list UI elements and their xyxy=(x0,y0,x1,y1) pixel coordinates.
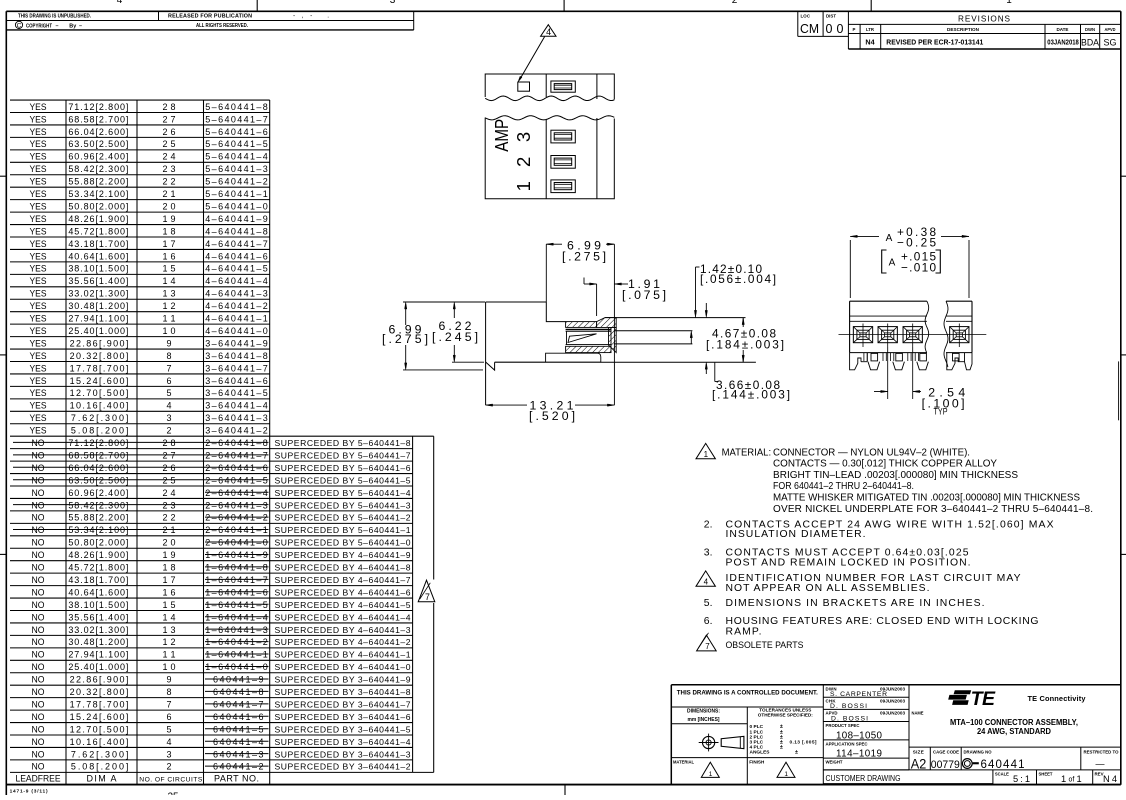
svg-text:NAME: NAME xyxy=(912,710,924,715)
svg-text:1: 1 xyxy=(704,450,709,459)
svg-text:YES: YES xyxy=(30,276,47,286)
svg-text:4–640441–7: 4–640441–7 xyxy=(205,239,267,249)
svg-text:SUPERCEDED BY 4–640441–3: SUPERCEDED BY 4–640441–3 xyxy=(275,625,411,635)
svg-text:SUPERCEDED BY 4–640441–1: SUPERCEDED BY 4–640441–1 xyxy=(275,650,411,660)
svg-text:YES: YES xyxy=(30,201,47,211)
svg-text:NO: NO xyxy=(32,525,45,535)
svg-text:7.62[.300]: 7.62[.300] xyxy=(71,749,129,759)
svg-text:640441–4: 640441–4 xyxy=(213,737,264,747)
svg-text:63.50[2.500]: 63.50[2.500] xyxy=(68,139,128,149)
svg-text:NO: NO xyxy=(32,600,45,610)
svg-text:−0.25: −0.25 xyxy=(897,236,936,250)
svg-text:SUPERCEDED BY 5–640441–7: SUPERCEDED BY 5–640441–7 xyxy=(275,450,411,460)
svg-text:5–640441–0: 5–640441–0 xyxy=(205,201,267,211)
svg-text:58.42[2.300]: 58.42[2.300] xyxy=(68,164,128,174)
svg-text:INSULATION DIAMETER.: INSULATION DIAMETER. xyxy=(726,529,866,540)
svg-text:YES: YES xyxy=(30,177,47,187)
size / cage code / drawing no row xyxy=(929,747,931,770)
svg-text:2–640441–1: 2–640441–1 xyxy=(205,525,267,535)
svg-text:SUPERCEDED BY 3–640441–8: SUPERCEDED BY 3–640441–8 xyxy=(275,687,411,697)
svg-text:SUPERCEDED BY 4–640441–6: SUPERCEDED BY 4–640441–6 xyxy=(275,587,411,597)
svg-text:NO: NO xyxy=(32,513,45,523)
svg-text:4–640441–8: 4–640441–8 xyxy=(205,226,267,236)
svg-text:NO: NO xyxy=(32,438,45,448)
dimension 3.66 +/-0.08 xyxy=(705,362,707,369)
svg-text:5–640441–6: 5–640441–6 xyxy=(205,127,267,137)
svg-text:A2: A2 xyxy=(911,757,927,772)
svg-text:7: 7 xyxy=(166,699,171,709)
svg-text:5–640441–7: 5–640441–7 xyxy=(205,114,267,124)
svg-text:63.50[2.500]: 63.50[2.500] xyxy=(68,475,128,485)
svg-text:68.58[2.700]: 68.58[2.700] xyxy=(68,450,128,460)
svg-text:APPLICATION SPEC: APPLICATION SPEC xyxy=(826,741,869,746)
svg-text:N4: N4 xyxy=(865,38,874,47)
svg-text:640441–8: 640441–8 xyxy=(213,687,264,697)
svg-text:LEADFREE: LEADFREE xyxy=(16,774,61,784)
svg-text:MATERIAL: MATERIAL xyxy=(673,760,694,765)
svg-text:—: — xyxy=(1096,759,1105,769)
svg-text:SUPERCEDED BY 3–640441–7: SUPERCEDED BY 3–640441–7 xyxy=(275,699,411,709)
revisions block LOC/DIST xyxy=(797,12,799,36)
dimension 2.54/.100 TYP xyxy=(887,347,889,399)
svg-text:LOC: LOC xyxy=(801,14,811,19)
svg-text:3–640441–4: 3–640441–4 xyxy=(205,401,267,411)
svg-text:YES: YES xyxy=(30,239,47,249)
svg-text:NO: NO xyxy=(32,712,45,722)
svg-text:640441–5: 640441–5 xyxy=(213,724,264,734)
svg-text:AMP: AMP xyxy=(491,119,512,152)
svg-text:[.275]: [.275] xyxy=(562,250,606,264)
svg-text:–: – xyxy=(79,23,82,29)
table grid horizontal lines xyxy=(10,99,270,101)
svg-text:NO: NO xyxy=(32,650,45,660)
svg-text:ALL RIGHTS RESERVED.: ALL RIGHTS RESERVED. xyxy=(196,23,248,29)
svg-text:A: A xyxy=(889,258,896,269)
svg-text:RAMP.: RAMP. xyxy=(726,626,762,637)
svg-text:2–640441–6: 2–640441–6 xyxy=(205,463,267,473)
svg-text:53.34[2.100]: 53.34[2.100] xyxy=(68,189,128,199)
svg-text:SUPERCEDED BY 5–640441–5: SUPERCEDED BY 5–640441–5 xyxy=(275,475,411,485)
svg-text:SUPERCEDED BY 4–640441–9: SUPERCEDED BY 4–640441–9 xyxy=(275,550,411,560)
svg-text:33.02[1.300]: 33.02[1.300] xyxy=(68,625,128,635)
scale sheet rev row xyxy=(1036,770,1038,785)
svg-text:DESCRIPTION: DESCRIPTION xyxy=(947,27,980,32)
svg-text:RESTRICTED TO: RESTRICTED TO xyxy=(1084,749,1119,754)
svg-text:3: 3 xyxy=(166,749,171,759)
svg-text:NO: NO xyxy=(32,538,45,548)
svg-text:24 AWG, STANDARD: 24 AWG, STANDARD xyxy=(977,726,1051,736)
svg-text:4: 4 xyxy=(704,578,709,587)
contact cavities (square contacts) xyxy=(853,327,872,343)
svg-text:17.78[.700]: 17.78[.700] xyxy=(70,363,129,373)
svg-text:FINISH: FINISH xyxy=(749,760,765,765)
svg-text:SUPERCEDED BY 5–640441–1: SUPERCEDED BY 5–640441–1 xyxy=(275,525,411,535)
svg-text:1: 1 xyxy=(784,771,788,778)
svg-text:NO: NO xyxy=(32,550,45,560)
signature rows xyxy=(823,696,909,698)
svg-text:NO: NO xyxy=(32,699,45,709)
svg-text:27.94[1.100]: 27.94[1.100] xyxy=(68,650,128,660)
svg-text:2: 2 xyxy=(166,426,171,436)
svg-text:1–640441–3: 1–640441–3 xyxy=(205,625,267,635)
svg-text:NO. OF CIRCUITS: NO. OF CIRCUITS xyxy=(139,776,203,783)
dimension 6.99/.275 left xyxy=(403,301,485,303)
svg-text:4: 4 xyxy=(166,737,171,747)
svg-text:YES: YES xyxy=(30,264,47,274)
svg-text:09JUN2003: 09JUN2003 xyxy=(880,698,905,703)
svg-text:YES: YES xyxy=(30,127,47,137)
svg-text:22.86[.900]: 22.86[.900] xyxy=(70,338,129,348)
svg-text:TE: TE xyxy=(971,688,996,710)
svg-text:40.64[1.600]: 40.64[1.600] xyxy=(68,587,128,597)
svg-text:4–640441–0: 4–640441–0 xyxy=(205,326,267,336)
svg-text:ANGLES: ANGLES xyxy=(750,749,771,755)
svg-text:30.48[1.200]: 30.48[1.200] xyxy=(68,637,128,647)
post lines extending right xyxy=(605,317,746,319)
svg-text:40.64[1.600]: 40.64[1.600] xyxy=(68,251,128,261)
svg-text:45.72[1.800]: 45.72[1.800] xyxy=(68,563,128,573)
break wavy lines xyxy=(925,301,929,352)
svg-text:NO: NO xyxy=(32,475,45,485)
svg-text:640441–9: 640441–9 xyxy=(213,675,264,685)
svg-text:66.04[2.600]: 66.04[2.600] xyxy=(68,127,128,137)
svg-text:A: A xyxy=(886,233,893,244)
svg-text:[.144±.003]: [.144±.003] xyxy=(712,388,790,402)
svg-text:4–640441–2: 4–640441–2 xyxy=(205,301,267,311)
svg-text:YES: YES xyxy=(30,326,47,336)
svg-text:5.: 5. xyxy=(704,598,713,609)
svg-text:00779: 00779 xyxy=(931,759,960,771)
svg-text:YES: YES xyxy=(30,102,47,112)
svg-text:SHEET: SHEET xyxy=(1039,772,1053,777)
svg-text:D. BOSSI: D. BOSSI xyxy=(830,703,867,710)
svg-text:YES: YES xyxy=(30,413,47,423)
svg-text:4: 4 xyxy=(166,401,171,411)
svg-text:5: 5 xyxy=(166,388,171,398)
svg-text:SUPERCEDED BY 5–640441–4: SUPERCEDED BY 5–640441–4 xyxy=(275,488,411,498)
svg-text:P: P xyxy=(853,27,856,32)
svg-text:APVD: APVD xyxy=(1105,27,1116,32)
svg-text:NOT APPEAR ON ALL ASSEMBLI: NOT APPEAR ON ALL ASSEMBLIES. xyxy=(726,583,930,594)
svg-text:2–640441–2: 2–640441–2 xyxy=(205,513,267,523)
svg-text:53.34[2.100]: 53.34[2.100] xyxy=(68,525,128,535)
svg-text:BRIGHT TIN–LEAD .00203[.000080: BRIGHT TIN–LEAD .00203[.000080] MIN THIC… xyxy=(773,470,1018,481)
dimension 1.91/.075 xyxy=(584,283,597,285)
svg-text:SUPERCEDED BY 3–640441–5: SUPERCEDED BY 3–640441–5 xyxy=(275,724,411,734)
svg-text:1–640441–1: 1–640441–1 xyxy=(205,650,267,660)
svg-text:7: 7 xyxy=(166,363,171,373)
svg-text:1: 1 xyxy=(1061,774,1066,784)
svg-text:WEIGHT: WEIGHT xyxy=(826,760,843,765)
svg-text:4: 4 xyxy=(546,27,551,37)
svg-text:C: C xyxy=(17,22,22,29)
dimension 1.42 +/-0.10 xyxy=(695,267,697,315)
sheet border frame xyxy=(6,10,1121,12)
svg-text:1: 1 xyxy=(513,181,534,191)
revisions table xyxy=(848,23,1120,25)
svg-text:SUPERCEDED BY 3–640441–6: SUPERCEDED BY 3–640441–6 xyxy=(275,712,411,722)
svg-text:1: 1 xyxy=(709,771,713,778)
svg-text:1–640441–9: 1–640441–9 xyxy=(205,550,267,560)
svg-text:SUPERCEDED BY 3–640441–9: SUPERCEDED BY 3–640441–9 xyxy=(275,675,411,685)
svg-text:YES: YES xyxy=(30,251,47,261)
svg-text:DIST: DIST xyxy=(826,14,836,19)
svg-text:2–640441–3: 2–640441–3 xyxy=(205,500,267,510)
svg-text:SUPERCEDED BY 4–640441–7: SUPERCEDED BY 4–640441–7 xyxy=(275,575,411,585)
svg-text:SG: SG xyxy=(1104,38,1117,49)
svg-text:NO: NO xyxy=(32,563,45,573)
svg-text:NO: NO xyxy=(32,612,45,622)
svg-text:114–1019: 114–1019 xyxy=(836,749,882,760)
svg-text:SUPERCEDED BY 4–640441–2: SUPERCEDED BY 4–640441–2 xyxy=(275,637,411,647)
svg-text:SUPERCEDED BY 5–640441–2: SUPERCEDED BY 5–640441–2 xyxy=(275,513,411,523)
svg-text:TE Connectivity: TE Connectivity xyxy=(1028,694,1087,703)
svg-text:SCALE: SCALE xyxy=(995,772,1009,777)
svg-text:33.02[1.300]: 33.02[1.300] xyxy=(68,289,128,299)
svg-text:0.13 [.005]: 0.13 [.005] xyxy=(790,739,817,745)
svg-text:22.86[.900]: 22.86[.900] xyxy=(70,675,129,685)
svg-text:15.24[.600]: 15.24[.600] xyxy=(70,376,129,386)
svg-text:30.48[1.200]: 30.48[1.200] xyxy=(68,301,128,311)
svg-text:20.32[.800]: 20.32[.800] xyxy=(70,351,129,361)
svg-text:640441–2: 640441–2 xyxy=(213,762,264,772)
svg-text:DIMENSIONS IN BRACKETS ARE: DIMENSIONS IN BRACKETS ARE IN INCHES. xyxy=(726,598,985,609)
svg-text:7.62[.300]: 7.62[.300] xyxy=(71,413,129,423)
contact windows lower xyxy=(551,130,575,143)
svg-text:2–640441–0: 2–640441–0 xyxy=(205,538,267,548)
svg-text:PART NO.: PART NO. xyxy=(214,774,259,784)
svg-text:BDA: BDA xyxy=(1081,38,1100,49)
svg-text:THIS DRAWING IS UNPUBLISHED.: THIS DRAWING IS UNPUBLISHED. xyxy=(18,13,91,19)
customer drawing cell xyxy=(823,769,1121,771)
svg-text:12.70[.500]: 12.70[.500] xyxy=(70,724,129,734)
svg-text:4–640441–3: 4–640441–3 xyxy=(205,289,267,299)
svg-text:5–640441–3: 5–640441–3 xyxy=(205,164,267,174)
svg-text:NO: NO xyxy=(32,737,45,747)
svg-text:MATTE WHISKER MITIGATED TIN .0: MATTE WHISKER MITIGATED TIN .00203[.0000… xyxy=(773,493,1080,504)
svg-text:NO: NO xyxy=(32,662,45,672)
svg-text:YES: YES xyxy=(30,226,47,236)
svg-text:20.32[.800]: 20.32[.800] xyxy=(70,687,129,697)
svg-text:3: 3 xyxy=(390,0,396,6)
obsolete bracket box xyxy=(412,436,414,772)
svg-text:43.18[1.700]: 43.18[1.700] xyxy=(68,239,128,249)
svg-text:of: of xyxy=(1069,777,1075,784)
svg-text:48.26[1.900]: 48.26[1.900] xyxy=(68,214,128,224)
svg-text:–: – xyxy=(56,23,59,29)
contact window upper xyxy=(551,81,575,92)
svg-text:[.520]: [.520] xyxy=(529,409,575,423)
svg-text:SUPERCEDED BY 3–640441–4: SUPERCEDED BY 3–640441–4 xyxy=(275,737,411,747)
svg-text:OTHERWISE SPECIFIED:: OTHERWISE SPECIFIED: xyxy=(758,712,813,718)
svg-text:By: By xyxy=(69,23,76,29)
svg-text:DWN: DWN xyxy=(1085,27,1095,32)
svg-text:27.94[1.100]: 27.94[1.100] xyxy=(68,314,128,324)
svg-text:25: 25 xyxy=(167,792,179,796)
svg-text:NO: NO xyxy=(32,488,45,498)
svg-text:NO: NO xyxy=(32,500,45,510)
svg-text:71.12[2.800]: 71.12[2.800] xyxy=(68,438,128,448)
svg-text:SUPERCEDED BY 4–640441–8: SUPERCEDED BY 4–640441–8 xyxy=(275,563,411,573)
svg-text:[.184±.003]: [.184±.003] xyxy=(706,337,784,351)
svg-text:1–640441–0: 1–640441–0 xyxy=(205,662,267,672)
svg-text:SUPERCEDED BY 5–640441–6: SUPERCEDED BY 5–640441–6 xyxy=(275,463,411,473)
svg-text:±: ± xyxy=(780,744,783,750)
svg-text:2–640441–4: 2–640441–4 xyxy=(205,488,267,498)
svg-text:12.70[.500]: 12.70[.500] xyxy=(70,388,129,398)
svg-text:2: 2 xyxy=(732,0,738,6)
svg-text:YES: YES xyxy=(30,363,47,373)
dimension 13.21/.520 xyxy=(486,404,527,406)
svg-text:DRAWING NO: DRAWING NO xyxy=(964,749,992,754)
svg-text:NO: NO xyxy=(32,587,45,597)
svg-text:[.275]: [.275] xyxy=(382,332,428,346)
svg-text:7: 7 xyxy=(705,642,710,651)
svg-text:4–640441–6: 4–640441–6 xyxy=(205,251,267,261)
svg-text:38.10[1.500]: 38.10[1.500] xyxy=(68,264,128,274)
svg-text:YES: YES xyxy=(30,376,47,386)
svg-text:9: 9 xyxy=(166,675,171,685)
svg-text:2–640441–5: 2–640441–5 xyxy=(205,475,267,485)
svg-text:1471-9 (3/11): 1471-9 (3/11) xyxy=(10,788,48,794)
svg-text:YES: YES xyxy=(30,426,47,436)
svg-text:3–640441–8: 3–640441–8 xyxy=(205,351,267,361)
svg-text:2: 2 xyxy=(513,157,534,167)
svg-text:8: 8 xyxy=(166,687,171,697)
svg-text:YES: YES xyxy=(30,338,47,348)
svg-text:CONTACTS — 0.30[.012] THICK CO: CONTACTS — 0.30[.012] THICK COPPER ALLOY xyxy=(773,459,997,470)
svg-text:15.24[.600]: 15.24[.600] xyxy=(70,712,129,722)
svg-text:1–640441–5: 1–640441–5 xyxy=(205,600,267,610)
svg-text:NO: NO xyxy=(32,625,45,635)
svg-text:NO: NO xyxy=(32,575,45,585)
dimension 6.99/.275 top xyxy=(546,243,562,245)
svg-text:7: 7 xyxy=(425,592,430,602)
svg-text:48.26[1.900]: 48.26[1.900] xyxy=(68,550,128,560)
svg-text:09JUN2003: 09JUN2003 xyxy=(880,711,905,716)
svg-text:8: 8 xyxy=(166,351,171,361)
top-left unpublished box xyxy=(6,20,413,22)
svg-text:5–640441–5: 5–640441–5 xyxy=(205,139,267,149)
svg-text:3–640441–5: 3–640441–5 xyxy=(205,388,267,398)
svg-text:DIM A: DIM A xyxy=(87,774,117,784)
bottom view body outline xyxy=(850,300,927,302)
svg-text:3–640441–6: 3–640441–6 xyxy=(205,376,267,386)
svg-text:POST AND REMAIN LOCKED IN: POST AND REMAIN LOCKED IN POSITION. xyxy=(726,557,971,568)
section cavity floor step xyxy=(546,353,601,362)
svg-text:3: 3 xyxy=(513,132,534,142)
svg-text:38.10[1.500]: 38.10[1.500] xyxy=(68,600,128,610)
front view connector lower fragment xyxy=(485,118,614,199)
svg-text:4–640441–5: 4–640441–5 xyxy=(205,264,267,274)
svg-text:50.80[2.000]: 50.80[2.000] xyxy=(68,538,128,548)
svg-text:SIZE: SIZE xyxy=(913,749,924,754)
svg-text:SUPERCEDED BY 5–640441–3: SUPERCEDED BY 5–640441–3 xyxy=(275,500,411,510)
title block outer and dividers xyxy=(671,684,1121,686)
svg-text:NO: NO xyxy=(32,637,45,647)
svg-text:1–640441–2: 1–640441–2 xyxy=(205,637,267,647)
svg-text:OBSOLETE PARTS: OBSOLETE PARTS xyxy=(726,640,804,650)
svg-text:mm [INCHES]: mm [INCHES] xyxy=(688,717,720,723)
svg-text:6.: 6. xyxy=(704,616,713,627)
section view housing outline xyxy=(486,301,547,303)
svg-text:25.40[1.000]: 25.40[1.000] xyxy=(68,326,128,336)
svg-text:35.56[1.400]: 35.56[1.400] xyxy=(68,612,128,622)
svg-text:4–640441–4: 4–640441–4 xyxy=(205,276,267,286)
svg-text:COPYRIGHT: COPYRIGHT xyxy=(26,23,53,29)
svg-text:5:1: 5:1 xyxy=(1013,774,1030,784)
svg-text:3.: 3. xyxy=(704,547,713,558)
svg-text:66.04[2.600]: 66.04[2.600] xyxy=(68,463,128,473)
svg-text:NO: NO xyxy=(32,463,45,473)
svg-text:03JAN2018: 03JAN2018 xyxy=(1047,40,1079,47)
svg-text:YES: YES xyxy=(30,114,47,124)
svg-text:3–640441–7: 3–640441–7 xyxy=(205,363,267,373)
svg-text:71.12[2.800]: 71.12[2.800] xyxy=(68,102,128,112)
svg-text:SUPERCEDED BY 4–640441–0: SUPERCEDED BY 4–640441–0 xyxy=(275,662,411,672)
svg-text:DIMENSIONS:: DIMENSIONS: xyxy=(687,709,720,715)
svg-text:1: 1 xyxy=(1006,0,1012,6)
svg-text:OVER NICKEL UNDERPLATE FOR 3–6: OVER NICKEL UNDERPLATE FOR 3–640441–2 TH… xyxy=(773,504,1093,515)
svg-text:55.88[2.200]: 55.88[2.200] xyxy=(68,177,128,187)
svg-text:FOR 640441–2 THRU 2–640441–8.: FOR 640441–2 THRU 2–640441–8. xyxy=(773,481,914,492)
svg-text:5–640441–1: 5–640441–1 xyxy=(205,189,267,199)
svg-text:YES: YES xyxy=(30,152,47,162)
svg-text:S. CARPENTER: S. CARPENTER xyxy=(830,691,887,698)
svg-text:NO: NO xyxy=(32,749,45,759)
svg-text:58.42[2.300]: 58.42[2.300] xyxy=(68,500,128,510)
svg-text:NO: NO xyxy=(32,450,45,460)
svg-text:YES: YES xyxy=(30,164,47,174)
svg-text:[.075]: [.075] xyxy=(622,288,666,302)
svg-text:3–640441–2: 3–640441–2 xyxy=(205,426,267,436)
svg-text:YES: YES xyxy=(30,214,47,224)
svg-text:50.80[2.000]: 50.80[2.000] xyxy=(68,201,128,211)
svg-text:CUSTOMER DRAWING: CUSTOMER DRAWING xyxy=(826,773,901,783)
svg-text:5–640441–8: 5–640441–8 xyxy=(205,102,267,112)
svg-text:2–640441–7: 2–640441–7 xyxy=(205,450,267,460)
svg-text:25.40[1.000]: 25.40[1.000] xyxy=(68,662,128,672)
svg-text:1–640441–7: 1–640441–7 xyxy=(205,575,267,585)
bracketed inch tolerance [A +.015/-.010] xyxy=(882,250,887,273)
svg-text:1: 1 xyxy=(1077,774,1082,784)
svg-text:SUPERCEDED BY 4–640441–4: SUPERCEDED BY 4–640441–4 xyxy=(275,612,411,622)
svg-text:±: ± xyxy=(795,749,798,755)
obsolete flag triangle 7 xyxy=(418,580,435,602)
svg-text:YES: YES xyxy=(30,139,47,149)
svg-text:NO: NO xyxy=(32,687,45,697)
svg-text:−.010: −.010 xyxy=(901,260,936,274)
svg-text:108–1050: 108–1050 xyxy=(836,731,883,742)
svg-text:RELEASED FOR PUBLICATION: RELEASED FOR PUBLICATION xyxy=(168,13,252,19)
svg-text:10.16[.400]: 10.16[.400] xyxy=(70,737,129,747)
svg-text:55.88[2.200]: 55.88[2.200] xyxy=(68,513,128,523)
svg-text:YES: YES xyxy=(30,351,47,361)
projection symbol xyxy=(699,734,744,752)
note 4 flag triangle xyxy=(696,571,715,586)
bottom feet / comb profile xyxy=(850,353,861,370)
svg-text:DATE: DATE xyxy=(1057,27,1069,32)
svg-text:SUPERCEDED BY 3–640441–2: SUPERCEDED BY 3–640441–2 xyxy=(275,762,411,772)
svg-text:6: 6 xyxy=(166,712,171,722)
dimension A +0.38/-0.25 xyxy=(849,240,851,298)
front view connector upper fragment xyxy=(485,74,614,100)
svg-text:3: 3 xyxy=(166,413,171,423)
svg-text:5–640441–2: 5–640441–2 xyxy=(205,177,267,187)
svg-text:REVISIONS: REVISIONS xyxy=(958,14,1011,23)
svg-text:4–640441–1: 4–640441–1 xyxy=(205,314,267,324)
svg-text:2: 2 xyxy=(166,762,171,772)
